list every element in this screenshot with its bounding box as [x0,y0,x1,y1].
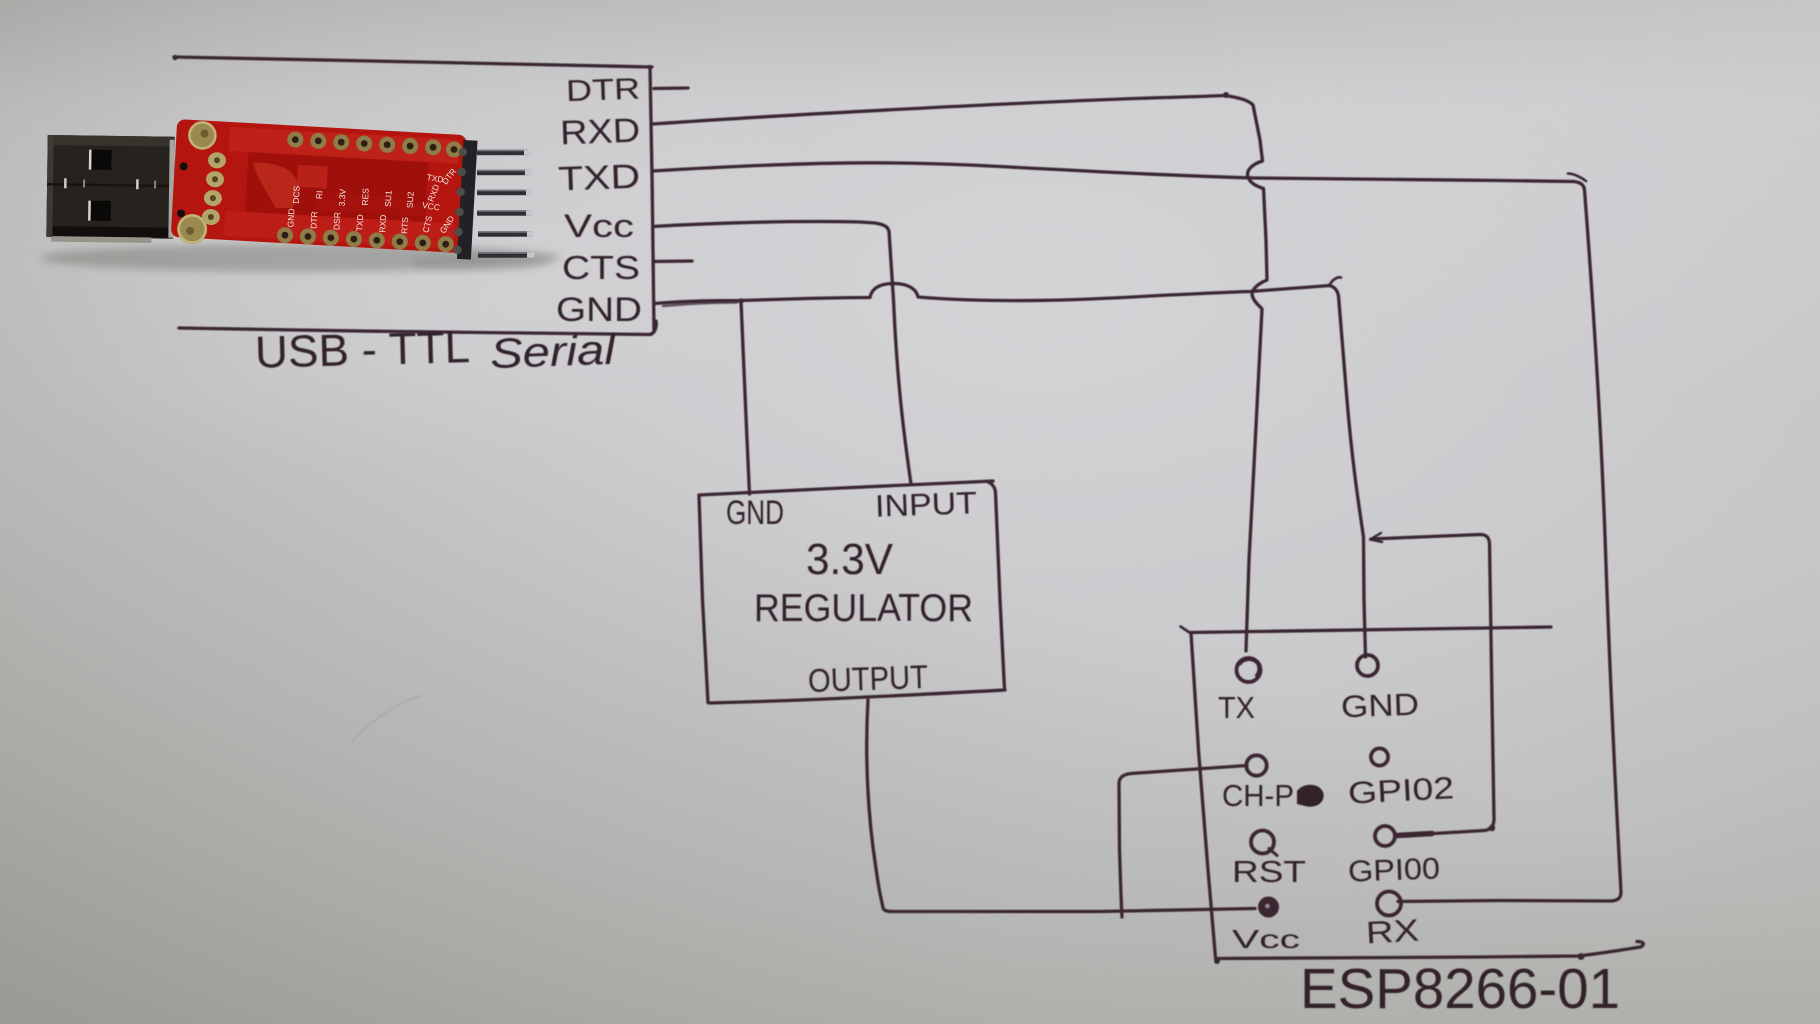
ESP pin circle GPIO0 [1375,826,1395,846]
blob on ESP bottom edge [1578,953,1585,960]
ESP box bottom-left corner blob [1214,958,1220,964]
TXD wire small hook mark [1568,174,1586,182]
big solder pad bottom-left [176,213,208,245]
wire TXD to ESP RX pin [652,163,1621,902]
svg-text:DTR: DTR [565,73,640,109]
svg-text:GPI00: GPI00 [1347,852,1440,888]
wire GND main run [654,284,1366,658]
svg-text:Vcc: Vcc [1232,924,1300,954]
ESP pin circle VCC light centre [1265,904,1270,909]
svg-text:DCS: DCS [291,185,302,204]
ESP box left edge [1191,633,1216,958]
svg-text:Vcc: Vcc [564,208,634,244]
wire GND branch to ESP GPIO0 [1371,535,1494,836]
svg-text:CTS: CTS [562,249,640,286]
USB metal plug [46,135,174,243]
svg-text:TXD: TXD [354,214,365,232]
ESP pin circle RX [1377,892,1401,916]
via dots [179,162,187,170]
ESP box top edge [1190,627,1551,633]
svg-text:CH-P: CH-P [1222,778,1294,813]
ESP box top-left tick [1181,627,1192,634]
USB-TTL box right edge [650,67,654,331]
ESP pin circle RST tail [1269,849,1277,856]
GND corner tick mark [1329,277,1341,286]
ESP pin circle VCC [1258,897,1279,918]
corner blob GPIO0 branch [1489,825,1495,831]
svg-text:SU2: SU2 [405,191,416,208]
svg-text:RI: RI [314,190,324,199]
svg-text:3.3V: 3.3V [806,535,894,584]
svg-text:GND: GND [726,494,784,532]
ESP pin circle GPIO2 [1371,748,1388,765]
ESP pin circle CH_PD [1246,755,1266,775]
USB-TTL adapter photo [40,119,560,272]
small pad column (4 pads) [208,152,227,169]
svg-text:USB - TTL: USB - TTL [254,321,470,378]
regulator box bottom edge [709,690,1005,703]
svg-text:DTR: DTR [308,211,319,229]
svg-text:RX: RX [1365,913,1420,951]
svg-text:RST: RST [1232,854,1306,889]
wire regulator OUTPUT to ESP VCC [867,700,1255,912]
ESP pin circle TX overdraw [1240,660,1259,676]
junction dot on RXD corner [1223,92,1229,98]
svg-text:3.3V: 3.3V [337,188,348,206]
top edge start blob [172,55,177,60]
svg-text:DSR: DSR [331,212,342,230]
pin DTR stub [654,86,688,90]
GPIO0 wire overdraw blob [1397,834,1432,836]
USB-TTL box top edge [174,57,652,67]
pin CTS stub [654,259,692,263]
svg-text:ESP8266-01: ESP8266-01 [1300,957,1620,1021]
faint paper crease [352,696,421,742]
big solder pad top-left [188,121,218,151]
bottom hole row [277,227,455,253]
svg-text:GPI02: GPI02 [1347,770,1455,810]
svg-text:TXD: TXD [557,158,640,199]
ESP box bottom edge [1216,942,1644,959]
svg-text:Serial: Serial [489,326,617,377]
label CH_PD filled D blob [1297,785,1324,807]
black header [457,140,478,260]
junction dot GND branch [738,298,744,304]
svg-text:GND: GND [556,291,642,329]
wire GND branch down to regulator GND [741,301,750,494]
svg-text:RTS: RTS [399,216,410,234]
svg-text:OUTPUT: OUTPUT [807,658,928,699]
ESP pin circle GND [1357,655,1378,676]
svg-text:GND: GND [285,208,296,227]
svg-text:INPUT: INPUT [874,485,977,524]
wire RXD to ESP TX pin [652,96,1267,652]
USB-TTL box bottom edge [179,321,656,335]
arrowhead at GPIO0 branch start [1370,533,1382,542]
svg-text:GND: GND [1340,687,1419,725]
regulator box right edge [987,482,1005,690]
wire ESP CH_PD branch [1119,766,1247,918]
svg-text:REGULATOR: REGULATOR [754,587,973,630]
svg-text:RES: RES [360,188,371,206]
regulator box top edge [699,481,993,495]
svg-text:SU1: SU1 [383,190,394,207]
svg-text:RXD: RXD [559,112,640,153]
svg-text:TX: TX [1218,690,1255,725]
svg-text:RXD: RXD [377,214,388,232]
regulator box left edge [699,496,708,703]
header pins [477,150,534,258]
top hole row [287,131,463,158]
ESP pin circle TX [1237,658,1261,682]
red PCB [170,119,477,260]
device shadow [40,244,560,272]
ESP pin circle RST [1251,831,1274,854]
wire Vcc to regulator INPUT [653,222,911,484]
GND wire overdraw near pin [663,303,737,307]
